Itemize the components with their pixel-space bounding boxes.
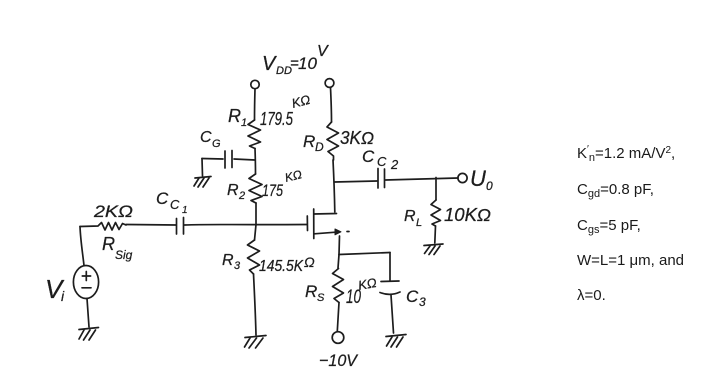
svg-text:KΩ: KΩ [283,167,303,185]
VDD supply label VDD=10V [262,43,329,77]
svg-text:R: R [102,234,115,254]
svg-text:C: C [170,197,180,212]
svg-text:2: 2 [238,190,245,202]
label RD [303,132,324,154]
resistor RD [327,122,339,160]
label 145.5KΩ [259,254,315,275]
svg-text:C: C [362,147,375,166]
wire RL to ground [434,226,437,243]
label RL [404,208,422,229]
ground for R3 [245,336,267,349]
capacitor CG [202,151,232,169]
svg-text:L: L [416,217,422,229]
svg-text:V: V [262,53,277,75]
svg-text:KΩ: KΩ [357,275,378,293]
ground for CG [194,177,211,188]
svg-text:KΩ: KΩ [290,92,312,111]
wire C3 to ground [391,295,394,333]
node Vo terminal [458,173,467,182]
svg-text:1: 1 [182,205,188,216]
svg-text:3KΩ: 3KΩ [340,128,374,148]
node VDD terminal right [325,79,334,88]
wire R3 to ground [254,274,257,335]
svg-text:2: 2 [390,157,399,172]
svg-text:V: V [317,43,329,60]
svg-text:K′n=1.2 mA/V2,: K′n=1.2 mA/V2, [577,144,675,164]
svg-text:C: C [406,287,419,306]
svg-text:Cgs=5 pF,: Cgs=5 pF, [577,217,641,236]
label R3 [222,252,241,272]
svg-text:C: C [377,154,387,169]
ground for Vi [79,328,99,341]
svg-text:3: 3 [234,260,241,272]
svg-text:D: D [315,140,324,154]
label CC2 [362,147,399,172]
svg-text:3: 3 [419,295,426,309]
svg-text:W=L=1 μm, and: W=L=1 μm, and [577,252,684,269]
signal source Vi [73,266,98,299]
svg-text:1: 1 [241,117,247,129]
label RS [305,282,325,304]
svg-text:C: C [200,129,212,146]
node -10V terminal [332,332,344,344]
node VDD terminal left [251,80,259,88]
label -10V [319,351,359,370]
wire node to RL [435,178,437,201]
svg-text:R: R [305,282,317,301]
wire source to RS node [338,236,341,255]
wire CG to ground [201,159,204,177]
svg-text:G: G [212,138,221,150]
svg-text:2KΩ: 2KΩ [93,202,133,221]
svg-text:145.5K: 145.5K [259,258,304,275]
capacitor C3 [380,281,400,294]
label C3 [406,287,426,309]
svg-text:U: U [470,166,486,191]
svg-text:S: S [317,292,325,304]
ground for RL [424,244,443,255]
resistor Rsig [80,223,126,231]
svg-text:179.5: 179.5 [260,109,294,129]
ground for C3 [386,335,406,348]
svg-text:R: R [227,182,239,199]
svg-text:10: 10 [298,54,317,73]
svg-text:175: 175 [262,181,283,200]
svg-text:0: 0 [486,179,493,193]
typed parameter text [577,144,684,304]
svg-text:−10V: −10V [319,351,359,370]
wire source node to C3 [339,253,390,255]
label 175 KΩ [262,167,303,200]
svg-text:10KΩ: 10KΩ [444,205,491,225]
wire Vi to Rsig [80,227,84,266]
svg-text:λ=0.: λ=0. [577,287,606,304]
svg-text:i: i [61,288,65,304]
label 3KΩ [340,128,374,148]
svg-text:R: R [222,252,234,269]
label CC1 [156,189,188,216]
label 2KΩ [93,202,133,221]
resistor R2 [249,174,262,203]
wire node to RS [338,255,339,269]
wire node to C3 top [389,253,391,282]
wire R1 to R2 [254,149,257,175]
wire Rsig to CC1 [126,224,176,227]
svg-text:R: R [404,208,416,225]
label R2 [227,182,245,202]
wire drain node to CC2 [335,181,378,182]
svg-text:Ω: Ω [304,254,315,270]
wire gate node to R3 [255,225,257,241]
label 179.5 KΩ [260,92,312,129]
label CG [200,129,221,150]
svg-text:R: R [303,132,315,151]
resistor RS [333,269,344,303]
wire node to CG [234,159,255,160]
resistor R1 [248,120,261,149]
wire CC2 to Vo [386,178,459,180]
wire RD to drain [333,160,335,212]
label 10KΩ [444,205,491,225]
capacitor CC2 [378,169,385,189]
wire R2 to gate node [255,203,257,225]
wire Vi to ground [87,299,89,328]
label 10KΩ for RS [346,275,378,308]
label Vo [470,166,493,193]
label Vi [45,274,65,304]
resistor RL [431,200,441,226]
resistor R3 [248,240,260,274]
wire VDD to RD [331,88,332,123]
wire CC1 to gate [185,224,308,227]
wire RS to terminal [337,303,339,332]
svg-text:R: R [228,106,241,126]
transistor Q1 MOSFET [307,209,349,239]
svg-text:Cgd=0.8 pF,: Cgd=0.8 pF, [577,181,654,200]
svg-text:Sig: Sig [115,248,133,262]
wire VDD to R1 [254,89,257,120]
svg-text:C: C [156,189,169,208]
label Rsig [102,234,133,262]
capacitor CC1 [177,218,184,235]
label R1 [228,106,247,129]
